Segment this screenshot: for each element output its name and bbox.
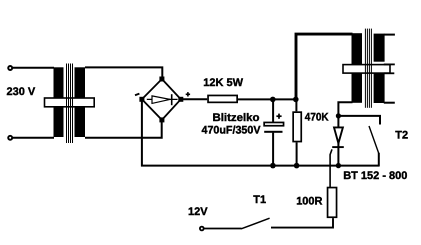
transformer TR1 core air-gap bar (45, 98, 95, 107)
wire anode to test switch contact (338, 116, 380, 125)
resistor R2 bottom lead (296, 142, 298, 166)
T2 secondary tap stub 3 (384, 72, 395, 74)
transformer TR1 secondary winding (75, 67, 86, 137)
T2 secondary tap stub 1 (384, 34, 395, 36)
rail junction dot at thyristor cathode (336, 163, 341, 168)
wire 12V terminal to switch T1 (204, 228, 241, 230)
wire TR1 secondary top to bridge AC input (85, 67, 162, 79)
label BT 152 - 800 (343, 170, 407, 182)
wire riser node B up to T2 primary (296, 34, 353, 99)
T2 secondary tap stub 2 (384, 63, 395, 65)
bridge rectifier B1 diamond (142, 79, 181, 120)
rail junction dot at C1 (270, 163, 276, 169)
label 230 V (7, 86, 36, 98)
wire from J2 to transformer primary bottom (13, 137, 54, 139)
label Blitzelko (213, 112, 260, 124)
rail junction dot at R2 (294, 163, 300, 169)
wire bridge plus output to R1 (181, 98, 207, 100)
resistor R2 470K top lead (295, 99, 297, 111)
label 12K 5W (203, 77, 243, 89)
bridge internal diode symbol (147, 94, 178, 105)
wire R3 bottom to switch T1 (271, 218, 333, 228)
svg-text:12V: 12V (188, 206, 208, 218)
thyristor V1 cathode bar (332, 146, 344, 148)
node A junction dot (270, 97, 276, 103)
bridge node square left (139, 97, 144, 102)
test switch lever (369, 126, 379, 154)
node B junction dot (293, 97, 299, 103)
wire R1 to node A and node B (238, 98, 297, 100)
svg-text:Blitzelko: Blitzelko (213, 112, 260, 124)
T2 secondary tap stub 4 (384, 102, 395, 104)
bridge node square top (159, 77, 164, 82)
bottom rail wire (141, 165, 379, 167)
label 12V (188, 206, 208, 218)
capacitor C1 negative plate (264, 131, 282, 133)
test switch lower lead to rail (378, 153, 380, 167)
bridge node square bottom (159, 117, 164, 122)
svg-text:230 V: 230 V (7, 86, 36, 98)
wire bridge minus down to bottom rail (141, 99, 143, 166)
label 100R (296, 196, 322, 208)
thyristor V1 gate lead down to R3 (330, 149, 332, 187)
svg-text:12K 5W: 12K 5W (203, 77, 243, 89)
transformer T2 primary winding (352, 33, 363, 103)
svg-text:100R: 100R (296, 196, 322, 208)
resistor R3 100R (328, 188, 337, 218)
thyristor V1 triangle (334, 127, 343, 143)
transformer TR1 primary winding (54, 67, 64, 137)
transformer T2 secondary winding lower (374, 74, 385, 104)
terminal J2 bottom (230V input) (8, 136, 12, 140)
transformer T2 secondary winding upper (374, 34, 385, 62)
capacitor C1 plus mark (276, 114, 281, 119)
capacitor C1 positive plate (264, 122, 283, 125)
svg-text:470uF/350V: 470uF/350V (202, 124, 262, 136)
svg-text:T2: T2 (395, 129, 408, 141)
terminal 12V (200, 227, 204, 231)
label 470uF/350V (202, 124, 262, 136)
switch T1 lever (241, 218, 269, 229)
wire T2 primary bottom to thyristor anode (338, 102, 352, 116)
thyristor V1 anode lead (337, 116, 339, 128)
wire from J1 to transformer primary top (13, 67, 54, 69)
anode junction dot (336, 113, 341, 118)
label T2 (395, 129, 408, 141)
thyristor V1 cathode lead to rail (337, 143, 339, 166)
capacitor C1 top lead (272, 99, 274, 122)
wire TR1 secondary bottom to bridge AC input (85, 120, 162, 138)
label T1 (253, 194, 266, 206)
bridge node square right (178, 97, 183, 102)
resistor R2 470K (293, 112, 301, 141)
plus polarity mark (186, 92, 190, 96)
resistor R1 12K 5W (208, 95, 237, 102)
terminal J1 top (230V input) (8, 66, 12, 70)
capacitor C1 bottom lead (272, 133, 274, 166)
svg-text:470K: 470K (305, 112, 329, 124)
transformer T2 core laminations (365, 29, 371, 108)
transformer T2 core air-gap bar (343, 65, 390, 74)
transformer TR1 core laminations (67, 64, 73, 144)
minus polarity mark (135, 94, 139, 96)
svg-text:BT 152 - 800: BT 152 - 800 (343, 170, 407, 182)
svg-text:T1: T1 (253, 194, 266, 206)
label 470K (305, 112, 329, 124)
